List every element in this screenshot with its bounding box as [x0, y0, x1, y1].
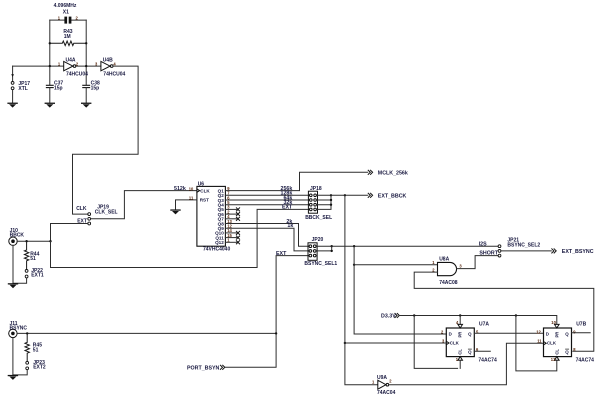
svg-text:74AC74: 74AC74	[576, 358, 595, 364]
wire to U8A pin 1	[354, 264, 437, 266]
connector J11 BSYNC	[9, 329, 17, 337]
svg-text:U8A: U8A	[439, 257, 449, 263]
svg-text:12: 12	[536, 329, 541, 334]
svg-text:4.096MHz: 4.096MHz	[54, 3, 77, 9]
off-page connector PORT_BSYN	[220, 365, 224, 369]
wire JP23 to ground	[13, 370, 27, 375]
wire U7A Qbar stub	[474, 350, 490, 352]
svg-text:CLK_SEL: CLK_SEL	[95, 209, 118, 215]
wire down to U7A D input	[354, 265, 446, 334]
svg-text:74AC04: 74AC04	[377, 390, 396, 396]
and-gate U8A 74AC08	[438, 262, 457, 275]
ground under JP17	[7, 103, 17, 108]
junction JP18 tie row2	[330, 199, 332, 201]
svg-text:CLK: CLK	[200, 188, 210, 193]
svg-text:PR: PR	[458, 332, 463, 338]
ground under J10	[8, 283, 18, 288]
U7B preset bubble triangle	[555, 324, 560, 328]
wire Q10 stub no-connect	[225, 231, 239, 234]
junction R43 left	[49, 42, 51, 44]
wire Q1 to MCLK_256k	[225, 172, 367, 190]
svg-text:15p: 15p	[54, 85, 63, 91]
junction rail at U7A clear pullup	[413, 314, 415, 316]
wire Q7 stub no-connect	[225, 217, 239, 220]
svg-text:1k: 1k	[287, 223, 293, 229]
wire Q5 stub no-connect	[225, 208, 239, 211]
svg-text:10: 10	[189, 186, 194, 191]
wire J10 to junction	[17, 240, 50, 242]
wire JP20 output to JP21 I2S pin	[332, 245, 498, 247]
op-amp U4A inverter 74HCU04	[64, 61, 76, 70]
svg-text:1M: 1M	[64, 34, 71, 40]
svg-text:D: D	[546, 331, 549, 336]
junction PORT_BSYN J11	[275, 332, 277, 334]
wire U4A output to U4B input	[76, 65, 101, 67]
svg-text:U6: U6	[198, 182, 205, 188]
U7B CLK triangle	[544, 342, 547, 345]
svg-text:15p: 15p	[91, 85, 100, 91]
capacitor C37	[46, 85, 53, 87]
off-page connector EXT_BBCK	[368, 193, 372, 197]
wire U8A output to JP21 SHORT pin	[457, 256, 499, 269]
wire Q12 stub no-connect	[225, 241, 239, 244]
wire Q9 to JP20 (1k)	[225, 228, 309, 251]
U7B clear bubble triangle	[555, 357, 560, 361]
junction JP20 tie row1	[331, 245, 333, 247]
wire JP17 to ground	[12, 90, 14, 103]
wire JP19 center pin to U6 CLK (512k net)	[91, 191, 197, 219]
wire branch down from I2S net	[353, 246, 355, 265]
jumper JP19 CLK_SEL	[88, 213, 91, 225]
svg-text:CL: CL	[554, 349, 559, 355]
U7A CLK triangle	[446, 341, 449, 344]
junction I2S branch to U8A and U7A	[353, 245, 355, 247]
marker arrow on JP17 riser	[11, 74, 14, 77]
junction R43 right	[85, 42, 87, 44]
header JP20 BSYNC_SEL1	[308, 243, 317, 260]
jumper JP22	[25, 270, 28, 278]
junction U8A input branch	[353, 264, 355, 266]
jumper JP23	[26, 361, 29, 369]
svg-text:EXT1: EXT1	[31, 273, 44, 279]
wire PORT_BSYN to JP20 EXT row	[225, 256, 309, 368]
svg-text:EXT_BBCK: EXT_BBCK	[378, 193, 407, 199]
svg-text:CLK: CLK	[547, 341, 557, 346]
wire JP21 output to EXT_BSYNC	[501, 250, 551, 252]
op-amp U9A inverter 74AC04	[378, 380, 389, 389]
connector J10 BBCK	[9, 237, 17, 245]
ground under C38	[81, 103, 91, 108]
svg-text:U9A: U9A	[377, 375, 387, 381]
svg-text:74AC74: 74AC74	[478, 358, 497, 364]
wire U7A CLK from BBCK vertical	[345, 342, 446, 344]
wire U7A preset drop	[459, 316, 461, 325]
junction JP18 tie row3	[330, 204, 332, 206]
wire BBCK vertical down to inverter	[345, 195, 378, 384]
svg-text:JP20: JP20	[312, 237, 324, 243]
wire crystal left branch vertical	[49, 20, 51, 85]
svg-text:74AC08: 74AC08	[439, 280, 458, 286]
wire crystal top right segment	[71, 19, 86, 21]
junction U4A output	[85, 65, 87, 67]
wire JP17 riser	[12, 66, 14, 81]
svg-text:74HCU04: 74HCU04	[103, 71, 125, 77]
junction J11 R45 tap	[26, 332, 28, 334]
jumper JP17	[11, 82, 14, 90]
wire U7A clear stub	[459, 360, 461, 368]
svg-text:EXT: EXT	[282, 205, 293, 211]
junction JP18 tie row1	[330, 194, 332, 196]
svg-text:BBCK: BBCK	[10, 233, 25, 239]
svg-text:U7B: U7B	[576, 321, 586, 327]
svg-text:I2S: I2S	[479, 242, 487, 248]
junction U4A input	[49, 65, 51, 67]
wire U7B clear to rail pullup	[516, 316, 557, 371]
resistor R45	[25, 333, 29, 361]
svg-text:PR: PR	[554, 332, 559, 338]
svg-text:Q: Q	[565, 349, 569, 354]
capacitor C38	[83, 85, 90, 87]
wire JP20 right pins tie	[316, 246, 332, 251]
svg-text:Q: Q	[565, 331, 569, 336]
svg-text:RST: RST	[200, 198, 209, 203]
ground under U6 RST	[170, 209, 180, 214]
wire D3.3V rail	[400, 316, 557, 325]
svg-text:51: 51	[33, 347, 39, 353]
svg-text:11: 11	[189, 195, 194, 200]
svg-text:U4B: U4B	[103, 58, 113, 64]
svg-text:Q: Q	[468, 349, 472, 354]
svg-text:EXT2: EXT2	[33, 365, 46, 371]
svg-text:BSYNC_SEL2: BSYNC_SEL2	[507, 242, 540, 248]
wire U7A Q to U7B D	[474, 332, 543, 334]
svg-text:PORT_BSYN: PORT_BSYN	[187, 365, 220, 371]
wire JP22 to ground	[13, 278, 27, 283]
svg-text:D3.3V: D3.3V	[381, 314, 396, 320]
svg-text:CLK: CLK	[76, 206, 87, 212]
wire JP18 right pins tie	[316, 195, 331, 209]
svg-text:13: 13	[551, 357, 556, 362]
wire oscillator input net (JP17 to U4A input)	[13, 65, 64, 67]
wire J11 to ground	[12, 338, 14, 375]
wire J10 to ground	[12, 245, 14, 283]
flip-flop U7A 74AC74	[446, 328, 474, 357]
junction rail at U7A preset	[459, 314, 461, 316]
ground under J11	[8, 375, 18, 380]
svg-text:MCLK_256k: MCLK_256k	[378, 170, 408, 176]
wire C38 to ground	[85, 88, 87, 103]
junction rail at U7B clear pullup	[515, 314, 517, 316]
svg-text:74VHC4040: 74VHC4040	[203, 246, 230, 252]
wire Q6 stub no-connect	[225, 213, 239, 216]
header JP18 BBCK_SEL	[308, 191, 317, 213]
wire U4B output to JP19 CLK pin	[73, 66, 139, 214]
junction BBCK at U7A CLK	[344, 342, 346, 344]
counter U6 74VHC4040	[197, 186, 226, 246]
wire crystal right branch vertical	[85, 20, 87, 85]
wire JP18 output to EXT_BBCK	[331, 194, 368, 196]
svg-text:Q12: Q12	[215, 240, 224, 245]
U7A preset bubble triangle	[458, 324, 463, 328]
header JP21 BSYNC_SEL2	[498, 245, 501, 257]
off-page connector D3.3V	[395, 313, 399, 317]
svg-text:U7A: U7A	[479, 321, 489, 327]
svg-text:CL: CL	[458, 349, 463, 355]
junction JP20 tie row2	[331, 250, 333, 252]
U7A clear bubble triangle	[458, 357, 463, 361]
wire Q8 to JP20 (2k)	[225, 224, 309, 247]
ground under C37	[45, 103, 55, 108]
junction J10 R44 tap	[25, 240, 27, 242]
svg-text:Q: Q	[468, 331, 472, 336]
flip-flop U7B 74AC74	[544, 328, 572, 357]
wire Q11 stub no-connect	[225, 236, 239, 239]
wire J11 to JP20 riser	[17, 332, 276, 334]
wire U7B Q stub	[572, 332, 591, 334]
wire EXT net from J10 junction to JP18 EXT row	[51, 209, 310, 267]
wire Q3 to JP18 (64k)	[225, 199, 309, 201]
svg-text:D: D	[449, 331, 452, 336]
overbar for U7B Qbar	[566, 348, 569, 350]
wire U7A clear pullup	[414, 316, 457, 369]
svg-text:CLK: CLK	[450, 341, 460, 346]
svg-text:BSYNC_SEL1: BSYNC_SEL1	[304, 261, 337, 267]
svg-text:EXT_BSYNC: EXT_BSYNC	[562, 249, 594, 255]
svg-text:51: 51	[30, 256, 36, 262]
off-page connector MCLK_256k	[368, 170, 372, 174]
resistor R43	[50, 41, 86, 46]
junction EXT_BBCK branch	[344, 194, 346, 196]
wire Q4 to JP18 (32k)	[225, 204, 309, 206]
svg-text:XTL: XTL	[18, 86, 27, 92]
crystal X1	[64, 17, 71, 24]
overbar for U7A Qbar	[468, 348, 471, 350]
svg-text:BBCK_SEL: BBCK_SEL	[305, 215, 332, 221]
svg-text:SHORT: SHORT	[479, 251, 498, 257]
svg-text:11: 11	[537, 339, 542, 344]
U6 CLK input triangle	[197, 189, 200, 192]
svg-text:74HCU04: 74HCU04	[66, 71, 88, 77]
wire Q2 to JP18 (128k)	[225, 194, 309, 196]
wire crystal top left segment	[50, 19, 65, 21]
wire U9A output to U7B CLK	[389, 343, 544, 385]
svg-text:U4A: U4A	[66, 58, 76, 64]
wire C37 to ground	[49, 88, 51, 103]
wire JP19 EXT pin down to J10 junction	[51, 224, 88, 242]
junction J10 EXT tap	[49, 240, 51, 242]
svg-text:EXT: EXT	[276, 251, 287, 257]
off-page connector EXT_BSYNC	[552, 249, 556, 253]
wire U8A pin2 from U7B Qbar feedback	[414, 272, 594, 351]
wire U6 RST to ground	[176, 200, 197, 210]
svg-text:JP18: JP18	[310, 186, 322, 192]
svg-text:X1: X1	[63, 9, 69, 15]
svg-text:10: 10	[551, 320, 556, 325]
resistor R44	[24, 241, 28, 269]
op-amp U4B inverter 74HCU04	[101, 61, 113, 70]
svg-text:512k: 512k	[174, 186, 186, 192]
svg-text:BSYNC: BSYNC	[10, 326, 28, 332]
